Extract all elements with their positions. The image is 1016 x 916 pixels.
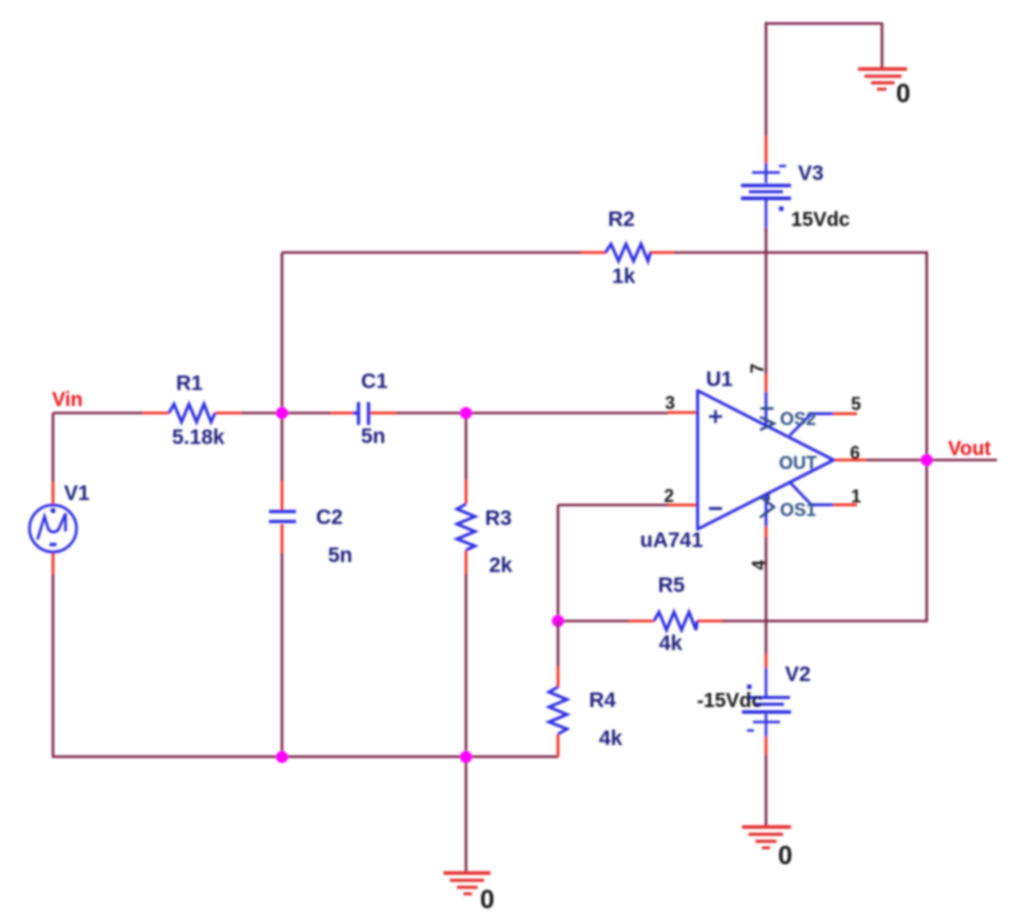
svg-text:R4: R4: [589, 689, 616, 712]
wire top from V3 to ground: [766, 23, 882, 69]
svg-text:5n: 5n: [328, 544, 353, 567]
wire R2 left stub (red): [581, 251, 606, 254]
resistor R5: [654, 612, 697, 630]
svg-text:0: 0: [778, 840, 792, 870]
node junction main-R3: [460, 407, 472, 419]
wire pin2 vertical down to R5 row: [557, 505, 560, 621]
wire V3 lower to pin7 region: [765, 229, 768, 374]
wire R4 branch upper: [557, 621, 560, 666]
wire pin2 row: [558, 504, 668, 507]
wire R2 row left segment: [282, 251, 581, 254]
wire V3 pin stub upper (red): [765, 136, 768, 163]
wire right vertical R2-to-R5: [925, 253, 928, 622]
capacitor C2: [269, 512, 296, 522]
wire R3 top stub (red): [465, 480, 468, 504]
svg-text:4k: 4k: [599, 727, 623, 750]
resistor R1: [169, 404, 215, 422]
wire pin6 stub (red): [834, 459, 866, 462]
pin1 OS1 lead: [790, 482, 833, 505]
op-amp plus input mark: [709, 410, 722, 423]
svg-text:2k: 2k: [489, 554, 513, 577]
svg-text:V1: V1: [64, 482, 90, 505]
svg-text:R3: R3: [485, 507, 512, 530]
svg-text:C2: C2: [316, 506, 343, 529]
svg-text:7: 7: [748, 363, 768, 373]
svg-text:15Vdc: 15Vdc: [791, 209, 850, 231]
resistor R4: [549, 687, 567, 734]
source V1: [30, 505, 77, 552]
battery V2: [742, 668, 791, 737]
wire R1 right stub (red): [215, 412, 241, 415]
op-amp U1: [698, 391, 834, 530]
ground bottom center: [444, 873, 491, 894]
wire pin3 stub (red): [668, 411, 698, 414]
svg-text:OS1: OS1: [780, 500, 816, 520]
wire V3 upper vertical: [765, 22, 768, 136]
wire pin7 stub (red): [765, 374, 768, 393]
svg-text:4: 4: [749, 560, 769, 570]
svg-text:R2: R2: [608, 208, 635, 231]
node junction bottom-C2: [276, 751, 288, 763]
wire left vertical V1 to bottom: [52, 574, 55, 758]
wire R3 bottom stub (red): [465, 550, 468, 574]
wire R3 branch to ground: [465, 757, 468, 873]
svg-text:U1: U1: [706, 368, 733, 391]
battery V3: [741, 163, 791, 228]
wire bottom row: [53, 755, 558, 758]
wire main row Vin corner to R1: [53, 412, 143, 415]
pin7 power glyph marks: [760, 409, 774, 431]
wire R5 left stub (red): [629, 620, 654, 623]
svg-text:V2: V2: [785, 663, 811, 686]
wire C1 left stub (red): [331, 412, 356, 415]
node junction Vout: [921, 454, 933, 466]
wire C2 branch lower: [281, 553, 284, 757]
wire V3 bottom tick (dark red): [765, 228, 768, 232]
pin4 power lead (blue): [765, 494, 768, 526]
svg-text:5n: 5n: [361, 425, 386, 448]
wire R5 row right: [722, 620, 928, 623]
wire R5 row left: [558, 620, 629, 623]
wire pin2 stub (red): [668, 504, 698, 507]
svg-text:0: 0: [480, 884, 494, 914]
ground bottom right: [742, 827, 791, 848]
svg-text:R5: R5: [658, 574, 685, 597]
wire R1 left stub (red): [143, 412, 169, 415]
svg-text:-15Vdc: -15Vdc: [697, 690, 763, 712]
wire V2 to ground: [765, 755, 768, 827]
pin4 power glyph marks: [760, 494, 774, 518]
svg-text:4k: 4k: [659, 632, 683, 655]
wire R3 branch lower: [465, 574, 468, 757]
node junction R5-R4-pin2: [552, 615, 564, 627]
svg-text:OS2: OS2: [780, 409, 816, 429]
resistor R2: [606, 244, 651, 261]
op-amp minus input mark: [709, 507, 722, 510]
svg-text:1k: 1k: [612, 265, 636, 288]
wire V2 bottom stub (red): [765, 737, 768, 755]
wire C2 branch upper: [281, 253, 284, 414]
svg-text:V3: V3: [798, 162, 824, 185]
ground top right: [858, 69, 907, 89]
wire pin4 vertical to V2: [765, 537, 768, 654]
wire C1 right stub (red): [370, 412, 396, 415]
wire R3 branch upper: [465, 413, 468, 480]
resistor R3: [457, 504, 475, 550]
svg-text:R1: R1: [176, 372, 203, 395]
wire V2 top stub (red): [765, 654, 768, 668]
wire main row R1 to C1: [241, 412, 331, 415]
svg-text:5: 5: [851, 394, 861, 414]
wire R5 right stub (red): [697, 620, 722, 623]
svg-text:Vin: Vin: [52, 389, 83, 411]
wire pin4 stub (red): [765, 526, 768, 537]
svg-text:Vout: Vout: [948, 438, 991, 460]
wire main row C1 to pin3: [396, 412, 668, 415]
wire C2 bottom stub (red): [281, 524, 284, 553]
wire R4 bottom stub (red): [557, 734, 560, 757]
svg-text:1: 1: [851, 487, 861, 507]
svg-text:OUT: OUT: [779, 453, 817, 473]
wire V1 bottom stub (red): [52, 551, 55, 574]
wire pin6 to Vout end: [866, 459, 997, 462]
wire R4 top stub (red): [557, 666, 560, 688]
capacitor C1: [353, 402, 369, 425]
wire R2 row right segment: [674, 251, 928, 254]
wire C2 top stub (red): [281, 481, 284, 510]
pin7 power lead (blue): [765, 392, 768, 426]
wire R2 right stub (red): [649, 251, 674, 254]
svg-text:3: 3: [665, 393, 675, 413]
wire V1 top stub (red): [52, 482, 55, 506]
pin5 OS2 lead: [790, 414, 833, 436]
svg-text:5.18k: 5.18k: [172, 426, 225, 449]
svg-text:0: 0: [896, 78, 910, 108]
wire C2 branch mid: [281, 413, 284, 481]
node junction main-C2: [276, 407, 288, 419]
node junction bottom-R3: [460, 751, 472, 763]
svg-text:6: 6: [850, 443, 860, 463]
svg-text:uA741: uA741: [640, 529, 703, 552]
wire left vertical Vin to V1: [52, 413, 55, 482]
svg-text:C1: C1: [361, 370, 388, 393]
svg-text:2: 2: [664, 486, 674, 506]
